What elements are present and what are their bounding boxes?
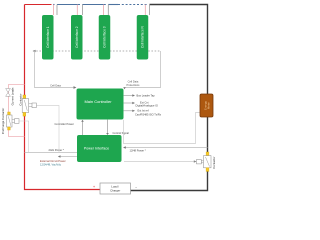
svg-text:Main Controller: Main Controller: [84, 99, 112, 104]
svg-text:Meter: Meter: [207, 102, 211, 109]
svg-text:Digital/Analogue IO: Digital/Analogue IO: [136, 104, 158, 108]
svg-text:Contactor: Contactor: [212, 156, 216, 168]
svg-text:24dc Power *: 24dc Power *: [49, 148, 64, 152]
svg-text:Ext Int ref: Ext Int ref: [138, 108, 149, 112]
svg-text:Controller Power: Controller Power: [55, 122, 74, 126]
svg-text:Cell Interface 1: Cell Interface 1: [46, 26, 50, 48]
svg-text:−: −: [135, 185, 137, 189]
svg-text:Protections: Protections: [127, 83, 141, 87]
svg-text:Cell Interface 3: Cell Interface 3: [103, 26, 107, 48]
svg-text:Power Interface: Power Interface: [84, 147, 109, 151]
svg-text:Current Leads: Current Leads: [11, 87, 15, 105]
svg-text:Charger: Charger: [110, 189, 120, 193]
svg-text:Bus Leader Tap: Bus Leader Tap: [137, 94, 156, 98]
svg-text:PreCharge Contactor: PreCharge Contactor: [1, 108, 5, 134]
svg-text:Can/RS485 ISO Tx/Rx: Can/RS485 ISO Tx/Rx: [135, 112, 162, 116]
svg-text:Cell Data: Cell Data: [50, 83, 61, 87]
svg-text:12/24/48, Vac/Vdc: 12/24/48, Vac/Vdc: [40, 163, 62, 167]
svg-text:Cell Interface 2: Cell Interface 2: [75, 26, 79, 48]
svg-text:External Circuit Power: External Circuit Power: [40, 159, 66, 163]
svg-text:Contactor: Contactor: [19, 93, 23, 105]
svg-text:Control Signal: Control Signal: [113, 131, 130, 135]
svg-text:Cell Interface N: Cell Interface N: [141, 26, 145, 49]
svg-text:12/48 Power *: 12/48 Power *: [130, 148, 146, 152]
